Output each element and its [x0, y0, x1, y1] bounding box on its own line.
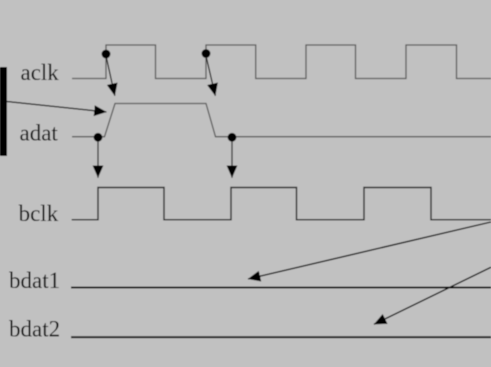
- svg-text:bdat2: bdat2: [9, 316, 60, 341]
- svg-text:bdat1: bdat1: [9, 268, 60, 293]
- svg-text:adat: adat: [20, 120, 59, 145]
- svg-text:bclk: bclk: [19, 201, 59, 226]
- svg-text:aclk: aclk: [21, 60, 60, 85]
